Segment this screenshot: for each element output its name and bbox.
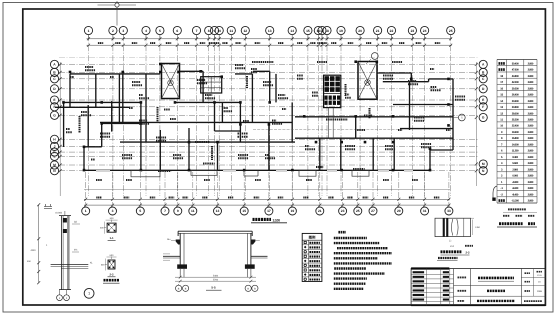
svg-text:1: 1 bbox=[85, 209, 87, 213]
svg-text:8: 8 bbox=[208, 29, 210, 33]
svg-text:24: 24 bbox=[423, 29, 427, 33]
svg-text:2.800: 2.800 bbox=[528, 94, 534, 97]
wall section detail bbox=[44, 204, 94, 301]
svg-text:2.800: 2.800 bbox=[528, 168, 534, 171]
svg-text:-5.600: -5.600 bbox=[512, 187, 519, 190]
svg-text:13: 13 bbox=[268, 29, 272, 33]
svg-text:5700: 5700 bbox=[213, 278, 219, 281]
svg-text:2008: 2008 bbox=[537, 290, 543, 293]
svg-text:1-1: 1-1 bbox=[110, 236, 114, 240]
svg-text:-8.400: -8.400 bbox=[512, 193, 519, 196]
svg-text:11: 11 bbox=[230, 29, 234, 33]
svg-text:33: 33 bbox=[447, 209, 451, 213]
svg-text:2.800: 2.800 bbox=[528, 175, 534, 178]
svg-text:19.600: 19.600 bbox=[512, 131, 519, 134]
top dimension line bbox=[87, 37, 453, 46]
svg-text:2.800: 2.800 bbox=[528, 106, 534, 109]
bottom dimension line bbox=[84, 172, 450, 207]
svg-text:47.600: 47.600 bbox=[512, 69, 519, 72]
svg-text:( ): ( ) bbox=[449, 240, 451, 243]
svg-text:15: 15 bbox=[242, 209, 246, 213]
storey elevation table bbox=[497, 60, 537, 204]
top axis marker bbox=[98, 1, 137, 26]
svg-text:-2.800: -2.800 bbox=[512, 181, 519, 184]
svg-text:20: 20 bbox=[358, 29, 362, 33]
svg-text:5.600: 5.600 bbox=[512, 162, 518, 165]
portal frame caption bbox=[206, 286, 222, 291]
svg-text:27: 27 bbox=[371, 209, 375, 213]
shaft 2 top leader bubble bbox=[366, 53, 378, 64]
svg-text:10: 10 bbox=[217, 29, 221, 33]
svg-text:1: 1 bbox=[88, 292, 90, 296]
storey table bracket bbox=[492, 186, 497, 201]
top grid bubbles 1-25 bbox=[84, 26, 454, 40]
right side leader bubble bbox=[453, 114, 465, 121]
svg-text:16: 16 bbox=[500, 87, 503, 90]
svg-text:9: 9 bbox=[177, 209, 179, 213]
svg-text:19: 19 bbox=[339, 29, 343, 33]
svg-text:17: 17 bbox=[267, 209, 271, 213]
beam labels bbox=[66, 62, 465, 180]
svg-text:23: 23 bbox=[411, 29, 415, 33]
elevator pit captions bbox=[437, 251, 470, 261]
legend table bbox=[302, 233, 322, 281]
svg-text:8.400: 8.400 bbox=[512, 156, 518, 159]
bottom grid bubbles bbox=[82, 207, 453, 215]
left dimension chain bbox=[59, 62, 62, 196]
svg-text:2.800: 2.800 bbox=[528, 62, 534, 65]
svg-text:2.800: 2.800 bbox=[528, 75, 534, 78]
column detail caption bbox=[103, 280, 120, 283]
concrete columns bbox=[62, 60, 450, 171]
right grid bubbles bbox=[479, 60, 487, 174]
stair shaft 2 with X brace bbox=[358, 62, 377, 100]
portal frame bubbles bbox=[176, 284, 259, 291]
right dimension chain bbox=[475, 62, 478, 186]
general notes bbox=[334, 232, 392, 289]
svg-text:14: 14 bbox=[500, 100, 503, 103]
svg-text:31: 31 bbox=[423, 209, 427, 213]
svg-text:2.800: 2.800 bbox=[528, 200, 534, 203]
svg-text:1: 1 bbox=[88, 29, 90, 33]
svg-text:28.000: 28.000 bbox=[512, 112, 519, 115]
svg-text:23: 23 bbox=[341, 209, 345, 213]
column detail 2-2 bbox=[101, 254, 117, 277]
svg-text:图例: 图例 bbox=[309, 236, 316, 240]
svg-text:14: 14 bbox=[290, 29, 294, 33]
detail circle 1 bbox=[84, 288, 94, 298]
svg-text:21: 21 bbox=[376, 29, 380, 33]
svg-text:5: 5 bbox=[139, 209, 141, 213]
svg-text:2.800: 2.800 bbox=[528, 156, 534, 159]
wall section dim chain bbox=[27, 203, 40, 284]
svg-text:18: 18 bbox=[325, 29, 329, 33]
svg-text:4: 4 bbox=[145, 29, 147, 33]
svg-text:L: L bbox=[53, 155, 55, 159]
svg-text:16.800: 16.800 bbox=[512, 137, 519, 140]
svg-text:2.800: 2.800 bbox=[528, 87, 534, 90]
svg-text:M: M bbox=[482, 162, 485, 166]
svg-text:3: 3 bbox=[112, 209, 114, 213]
svg-text:1450: 1450 bbox=[475, 226, 481, 229]
svg-text:0.000: 0.000 bbox=[512, 175, 518, 178]
title block bbox=[411, 269, 545, 306]
svg-text:12: 12 bbox=[500, 112, 503, 115]
elevator shaft hatched bbox=[253, 75, 400, 138]
svg-text:11: 11 bbox=[500, 119, 503, 122]
svg-text:10: 10 bbox=[500, 125, 503, 128]
svg-text:2.800: 2.800 bbox=[528, 112, 534, 115]
svg-text:2.800: 2.800 bbox=[528, 131, 534, 134]
svg-text:±0.000: ±0.000 bbox=[55, 212, 63, 215]
svg-text:11.200: 11.200 bbox=[512, 150, 519, 153]
svg-text:42.000: 42.000 bbox=[512, 81, 519, 84]
svg-text:22.400: 22.400 bbox=[512, 125, 519, 128]
svg-text:19: 19 bbox=[291, 209, 295, 213]
balcony projections bbox=[96, 169, 413, 177]
svg-text:18: 18 bbox=[500, 75, 503, 78]
svg-text:5: 5 bbox=[159, 29, 161, 33]
storey table caption bbox=[497, 224, 537, 227]
portal frame detail bbox=[163, 231, 268, 282]
svg-text:3: 3 bbox=[122, 29, 124, 33]
svg-text:2.800: 2.800 bbox=[528, 162, 534, 165]
svg-text:1:100: 1:100 bbox=[273, 218, 281, 222]
svg-text:2.800: 2.800 bbox=[528, 125, 534, 128]
horizontal grid lines bbox=[59, 58, 478, 171]
svg-text:36.400: 36.400 bbox=[512, 94, 519, 97]
svg-text:7: 7 bbox=[196, 29, 198, 33]
svg-text:29: 29 bbox=[397, 209, 401, 213]
svg-text:2.800: 2.800 bbox=[512, 168, 518, 171]
svg-text:2.800: 2.800 bbox=[528, 137, 534, 140]
svg-text:2-2: 2-2 bbox=[466, 251, 470, 255]
svg-text:F: F bbox=[482, 105, 484, 109]
svg-text:14.000: 14.000 bbox=[512, 143, 519, 146]
svg-text:22: 22 bbox=[390, 29, 394, 33]
svg-text:2.800: 2.800 bbox=[528, 100, 534, 103]
svg-text:2.800: 2.800 bbox=[528, 119, 534, 122]
svg-text:2.800: 2.800 bbox=[528, 187, 534, 190]
svg-text:25: 25 bbox=[356, 209, 360, 213]
svg-text:5400: 5400 bbox=[213, 274, 219, 277]
svg-text:50.400: 50.400 bbox=[512, 62, 519, 65]
svg-text:21: 21 bbox=[318, 209, 322, 213]
svg-text:4440: 4440 bbox=[30, 249, 36, 252]
svg-text:15: 15 bbox=[306, 29, 310, 33]
svg-text:39.200: 39.200 bbox=[512, 87, 519, 90]
svg-text:5-5: 5-5 bbox=[211, 286, 216, 290]
svg-text:7: 7 bbox=[164, 209, 166, 213]
left grid bubbles A-N bbox=[50, 60, 58, 174]
service box bbox=[201, 77, 222, 93]
stair shaft 1 with X brace bbox=[162, 64, 180, 99]
svg-text:2.800: 2.800 bbox=[528, 193, 534, 196]
svg-text:4%: 4% bbox=[74, 249, 77, 252]
svg-text:2.800: 2.800 bbox=[528, 150, 534, 153]
vertical grid lines bbox=[89, 35, 451, 196]
svg-text:2.800: 2.800 bbox=[528, 81, 534, 84]
svg-text:17: 17 bbox=[500, 81, 503, 84]
building wall segments bbox=[55, 71, 453, 170]
svg-text:-11.200: -11.200 bbox=[511, 200, 519, 203]
svg-text:2.800: 2.800 bbox=[528, 181, 534, 184]
svg-text:2.800: 2.800 bbox=[528, 143, 534, 146]
svg-text:25: 25 bbox=[449, 29, 453, 33]
column detail 1-1 bbox=[100, 217, 118, 240]
svg-text:15: 15 bbox=[500, 94, 503, 97]
svg-text:30.800: 30.800 bbox=[512, 106, 519, 109]
svg-text:11: 11 bbox=[191, 209, 195, 213]
svg-text:2: 2 bbox=[112, 29, 114, 33]
svg-text:2.800: 2.800 bbox=[528, 69, 534, 72]
svg-text:G: G bbox=[482, 116, 485, 120]
svg-text:13: 13 bbox=[216, 209, 220, 213]
svg-text:44.800: 44.800 bbox=[512, 75, 519, 78]
svg-text:33.600: 33.600 bbox=[512, 100, 519, 103]
plan title bbox=[251, 218, 287, 222]
svg-text:G: G bbox=[53, 114, 56, 118]
elevator pit detail bbox=[435, 218, 481, 248]
svg-text:12: 12 bbox=[243, 29, 247, 33]
svg-text:25.200: 25.200 bbox=[512, 119, 519, 122]
svg-text:2-2: 2-2 bbox=[450, 245, 454, 248]
svg-text:13: 13 bbox=[500, 106, 503, 109]
svg-text:2-2: 2-2 bbox=[109, 273, 113, 277]
storey table footnotes bbox=[503, 209, 537, 215]
svg-text:6: 6 bbox=[176, 29, 178, 33]
